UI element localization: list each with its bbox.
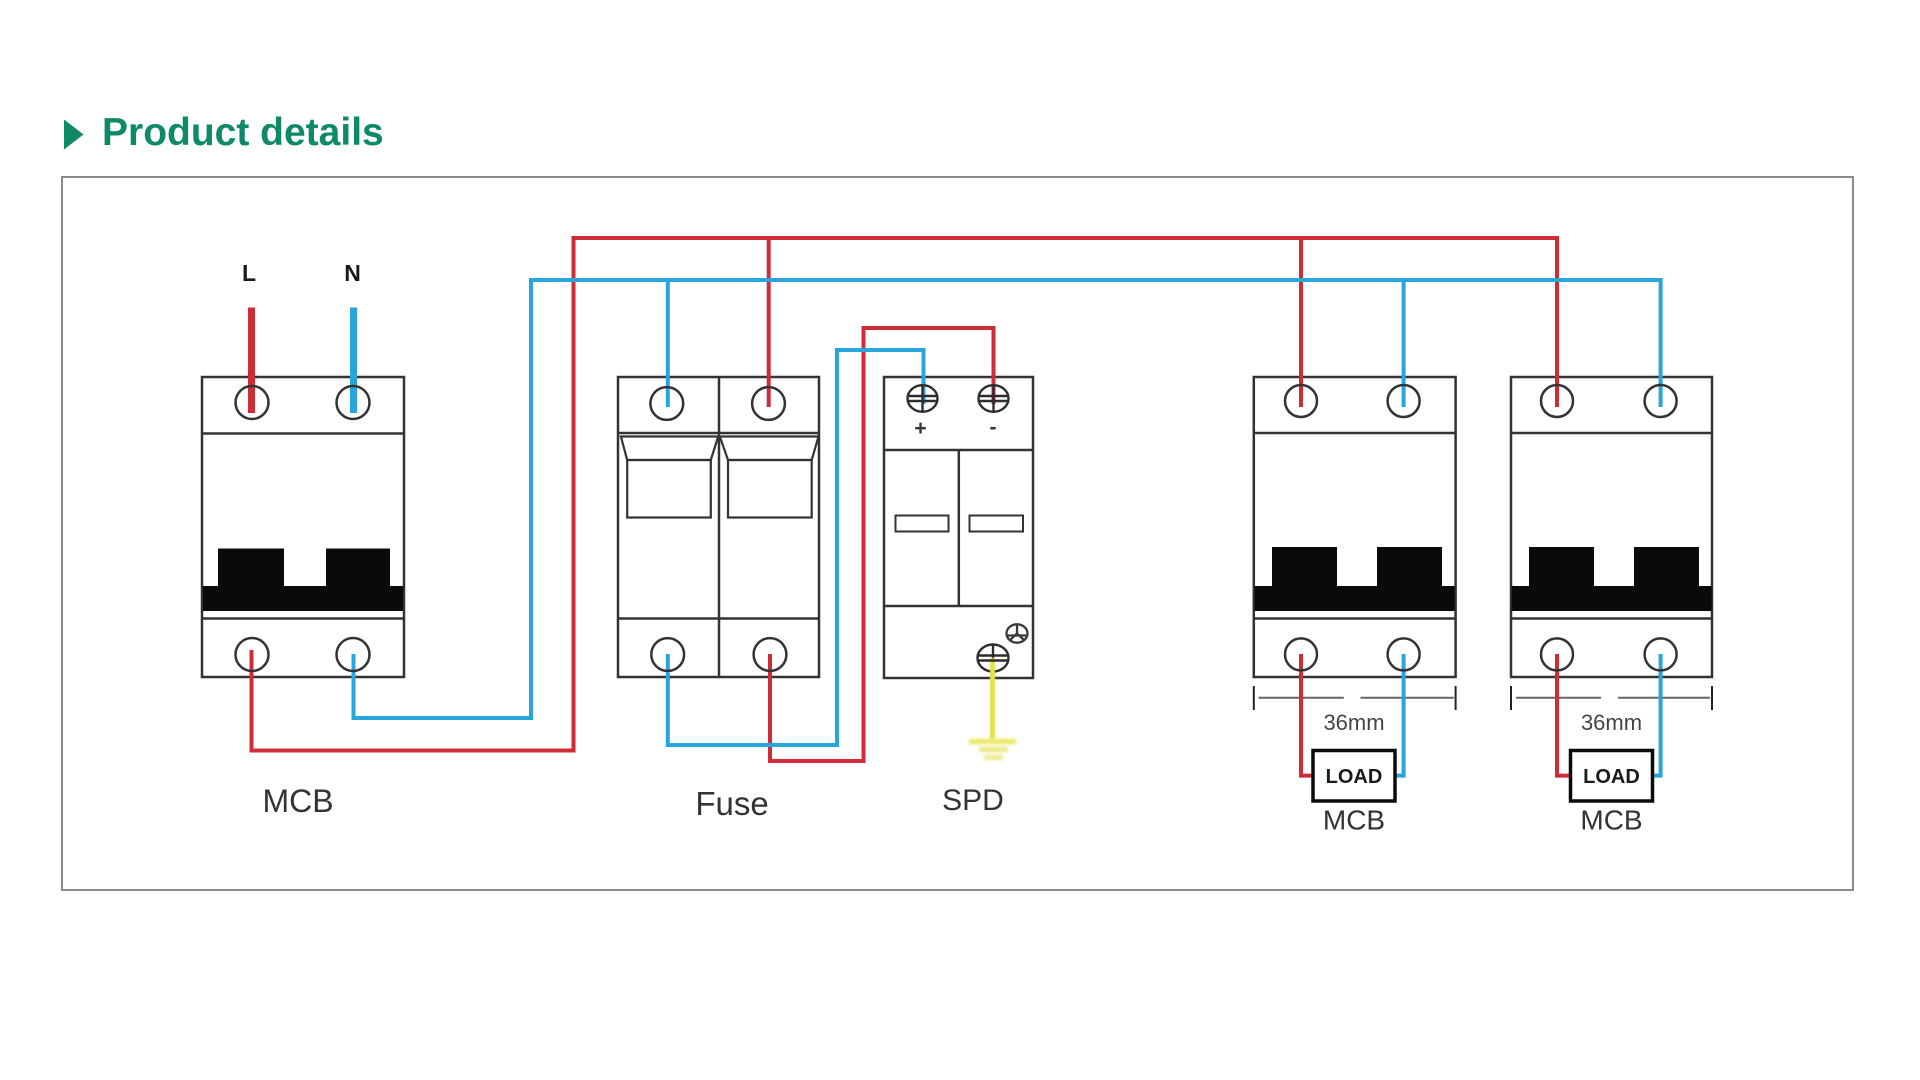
svg-text:MCB: MCB — [1323, 805, 1385, 836]
wire blue bus (MCB out to breakers) — [354, 280, 1661, 718]
svg-text:MCB: MCB — [1580, 805, 1642, 836]
svg-text:36mm: 36mm — [1581, 710, 1642, 735]
SPD earth screw body — [978, 645, 1009, 672]
SPD screw terminal + — [908, 385, 938, 412]
SPD body — [884, 377, 1033, 678]
wire red bus (MCB out to breakers) — [252, 238, 1558, 751]
dimension line MCB load 1 — [1254, 686, 1456, 710]
wire blue branch to fuse — [666, 280, 670, 407]
wire red MCB load 2 to LOAD — [1557, 654, 1571, 776]
wire red MCB load 1 to LOAD — [1301, 654, 1313, 776]
SPD screw terminal - — [979, 385, 1009, 412]
wire red fuse to SPD - — [770, 328, 994, 761]
MCB (load 2) black toggle blocks — [1512, 547, 1712, 611]
MCB (load 1) black toggle blocks — [1255, 547, 1455, 611]
svg-text:LOAD: LOAD — [1326, 766, 1383, 788]
svg-text:N: N — [344, 260, 361, 286]
Fuse terminal circles — [650, 387, 786, 671]
MCB (load 1) terminal circles — [1285, 385, 1420, 670]
wire N blue feed stub — [350, 308, 357, 414]
fuse holder right — [720, 437, 819, 518]
wire blue branch to MCB load 1 — [1402, 280, 1406, 407]
svg-text:L: L — [242, 260, 256, 286]
SPD small screw — [1007, 624, 1028, 642]
wire yellow SPD earth — [990, 658, 995, 739]
svg-text:MCB: MCB — [262, 783, 333, 819]
svg-text:Product details: Product details — [102, 111, 384, 154]
dimension line MCB load 2 — [1511, 686, 1712, 710]
svg-text:SPD: SPD — [942, 784, 1004, 817]
MCB (load 2) body — [1511, 377, 1712, 677]
wire red branch to fuse — [767, 238, 771, 407]
LOAD box 1 — [1313, 751, 1395, 802]
MCB (left) black toggle blocks — [203, 549, 403, 612]
MCB (left) terminal circles — [236, 386, 370, 671]
Fuse body — [618, 377, 819, 677]
MCB (left) body — [202, 377, 404, 677]
svg-text:-: - — [990, 416, 997, 439]
MCB (load 2) terminal circles — [1541, 385, 1677, 670]
svg-text:LOAD: LOAD — [1583, 766, 1640, 788]
wire red branch to MCB load 1 — [1299, 238, 1303, 407]
LOAD box 2 — [1571, 751, 1653, 802]
svg-text:+: + — [914, 417, 926, 440]
svg-text:36mm: 36mm — [1323, 710, 1384, 735]
SPD indicator window left — [896, 516, 949, 532]
fuse holder left — [621, 437, 718, 518]
ground symbol — [969, 742, 1016, 758]
MCB (load 1) body — [1254, 377, 1456, 677]
SPD earth screw slot lines — [978, 656, 1008, 661]
SPD indicator window right — [970, 516, 1024, 532]
wire blue MCB load 2 to LOAD — [1653, 654, 1661, 776]
diagram frame — [62, 177, 1853, 890]
wire blue MCB load 1 to LOAD — [1395, 654, 1404, 776]
svg-text:Fuse: Fuse — [695, 785, 768, 822]
wire L red feed stub — [248, 308, 255, 414]
section marker triangle — [64, 120, 84, 150]
wire blue fuse to SPD + — [668, 350, 924, 745]
